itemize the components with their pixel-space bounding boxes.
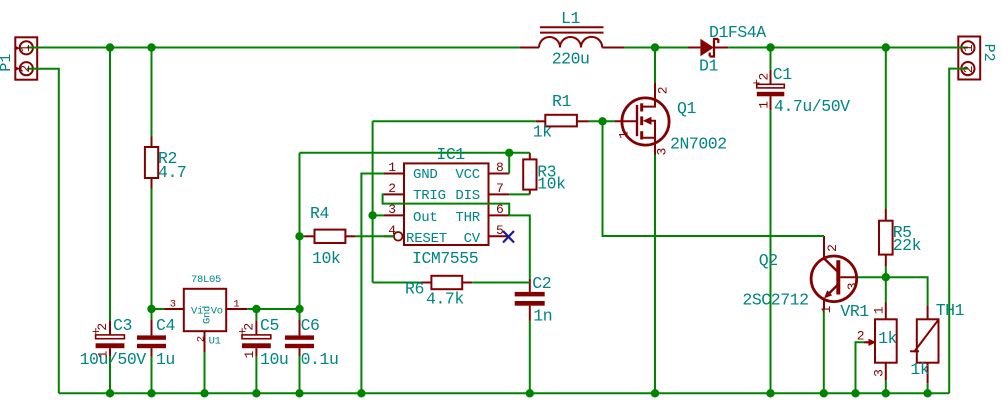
svg-text:GND: GND (413, 167, 438, 183)
svg-text:3: 3 (845, 282, 860, 290)
svg-text:+: + (92, 325, 100, 340)
svg-text:1: 1 (242, 350, 257, 358)
svg-text:R1: R1 (552, 92, 571, 111)
svg-text:THR: THR (455, 210, 480, 226)
svg-text:2: 2 (825, 244, 840, 252)
svg-text:2SC2712: 2SC2712 (742, 291, 808, 310)
svg-text:Out: Out (413, 210, 438, 226)
svg-text:TRIG: TRIG (413, 188, 446, 204)
svg-text:L1: L1 (561, 9, 580, 28)
svg-text:IC1: IC1 (436, 145, 465, 164)
svg-text:1k: 1k (533, 123, 552, 142)
svg-text:4.7u/50V: 4.7u/50V (774, 97, 850, 116)
svg-text:CV: CV (464, 231, 481, 247)
svg-text:2: 2 (388, 181, 396, 196)
svg-text:6: 6 (496, 202, 504, 217)
svg-text:1: 1 (617, 131, 632, 139)
svg-text:TH1: TH1 (936, 301, 965, 320)
svg-text:1: 1 (819, 305, 834, 313)
svg-text:R6: R6 (405, 280, 424, 299)
svg-text:3: 3 (170, 299, 176, 311)
svg-text:1: 1 (388, 160, 396, 175)
svg-text:Q1: Q1 (677, 99, 696, 118)
svg-text:C4: C4 (156, 316, 175, 335)
svg-text:0.1u: 0.1u (301, 350, 339, 369)
svg-text:7: 7 (496, 181, 504, 196)
svg-text:P2: P2 (980, 44, 997, 62)
svg-text:1: 1 (871, 306, 886, 314)
svg-text:4.7: 4.7 (158, 163, 186, 182)
svg-text:1k: 1k (878, 329, 897, 348)
svg-text:RESET: RESET (406, 231, 447, 247)
svg-text:3: 3 (871, 369, 886, 377)
svg-text:2: 2 (656, 86, 671, 94)
svg-text:2N7002: 2N7002 (670, 135, 727, 154)
svg-text:VR1: VR1 (840, 302, 869, 321)
svg-text:Q2: Q2 (759, 251, 778, 270)
svg-text:+: + (752, 76, 760, 91)
svg-text:1: 1 (961, 44, 976, 52)
svg-text:1u: 1u (156, 350, 175, 369)
svg-text:C1: C1 (773, 65, 792, 84)
svg-text:Gnd: Gnd (202, 306, 214, 324)
svg-text:C3: C3 (113, 316, 132, 335)
svg-text:3: 3 (655, 148, 670, 156)
svg-text:10u/50V: 10u/50V (80, 350, 147, 369)
svg-text:C2: C2 (532, 274, 551, 293)
svg-text:D1FS4A: D1FS4A (709, 23, 766, 42)
svg-text:1: 1 (18, 44, 33, 52)
svg-text:2: 2 (857, 329, 865, 344)
svg-text:10u: 10u (260, 350, 288, 369)
svg-text:+: + (238, 325, 246, 340)
svg-text:220u: 220u (552, 50, 590, 69)
svg-text:22k: 22k (893, 236, 922, 255)
svg-text:1: 1 (757, 101, 772, 109)
svg-text:2: 2 (195, 336, 207, 342)
svg-text:4.7k: 4.7k (426, 290, 464, 309)
svg-text:5: 5 (496, 223, 504, 238)
svg-text:4: 4 (388, 223, 396, 238)
svg-text:1: 1 (95, 350, 110, 358)
svg-text:D1: D1 (699, 57, 718, 76)
svg-text:1k: 1k (910, 360, 929, 379)
svg-text:1: 1 (233, 299, 239, 311)
svg-text:1n: 1n (533, 307, 552, 326)
svg-text:2: 2 (961, 65, 976, 73)
svg-text:DIS: DIS (455, 188, 480, 204)
svg-text:P1: P1 (0, 54, 15, 72)
svg-text:C5: C5 (260, 316, 279, 335)
svg-text:VCC: VCC (455, 167, 480, 183)
svg-text:10k: 10k (312, 249, 341, 268)
svg-text:3: 3 (388, 202, 396, 217)
svg-text:R4: R4 (310, 204, 329, 223)
svg-text:2: 2 (18, 65, 33, 73)
svg-text:78L05: 78L05 (191, 274, 221, 286)
svg-text:C6: C6 (301, 316, 320, 335)
svg-text:8: 8 (496, 160, 504, 175)
svg-text:ICM7555: ICM7555 (412, 249, 478, 268)
svg-text:10k: 10k (537, 175, 566, 194)
svg-text:U1: U1 (209, 336, 221, 348)
